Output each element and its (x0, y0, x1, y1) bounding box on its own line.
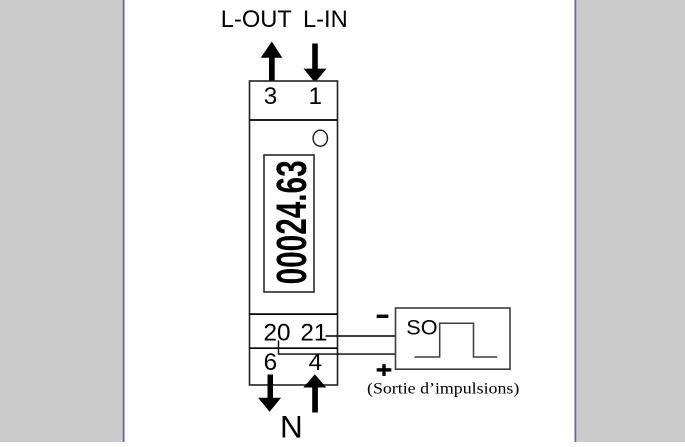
svg-text:N: N (280, 409, 303, 442)
svg-text:L-IN: L-IN (303, 7, 348, 33)
arrow terminal 4 (up, N in) (303, 374, 326, 412)
svg-text:(Sortie d’impulsions): (Sortie d’impulsions) (367, 381, 519, 398)
svg-text:21: 21 (300, 320, 327, 347)
pulse waveform (415, 323, 498, 357)
svg-text:20: 20 (263, 320, 290, 347)
wire terminal 21 to SO box (minus) (326, 335, 397, 337)
SO pulse output box (396, 308, 511, 369)
svg-text:6: 6 (264, 349, 278, 376)
left gray panel (0, 0, 123, 442)
svg-text:3: 3 (264, 83, 278, 110)
svg-text:L-OUT: L-OUT (221, 7, 292, 33)
meter lower terminal separator (20-21 / 6-4) (250, 347, 338, 349)
minus sign at SO input (377, 315, 389, 318)
right panel border line (575, 0, 577, 442)
plus sign at SO input (377, 364, 392, 376)
wire terminal 20 to SO box (plus) (279, 341, 397, 355)
svg-text:1: 1 (309, 83, 323, 110)
right gray panel (576, 0, 685, 442)
meter body outline (250, 81, 338, 385)
arrow L-OUT (up, terminal 3) (261, 42, 283, 83)
svg-text:SO: SO (406, 314, 437, 339)
svg-text:4: 4 (309, 349, 323, 376)
svg-text:00024.63: 00024.63 (269, 160, 316, 284)
left panel border line (123, 0, 125, 442)
meter lower terminal separator (body / 20-21) (250, 313, 338, 315)
arrow L-IN (down, terminal 1) (304, 44, 327, 83)
LED indicator circle (313, 130, 327, 146)
display window (264, 155, 314, 292)
arrow terminal 6 (down, N out) (258, 375, 281, 412)
meter top terminal separator (250, 119, 338, 121)
